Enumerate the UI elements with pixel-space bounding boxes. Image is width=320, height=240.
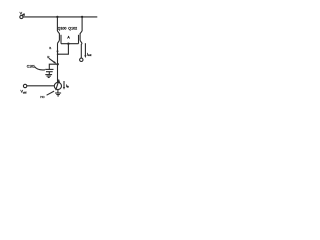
ground below capacitor xyxy=(45,75,52,78)
wire current source to ground xyxy=(57,90,59,93)
node A xyxy=(67,35,70,45)
wire Vctrl to current source xyxy=(27,85,55,87)
current source xyxy=(54,79,61,90)
svg-text:Vdd: Vdd xyxy=(20,12,26,17)
ground below current source xyxy=(55,93,61,96)
transistor Q100 xyxy=(57,26,66,43)
svg-text:Iout: Iout xyxy=(87,52,92,57)
svg-text:A: A xyxy=(67,35,70,39)
wire Q102 drain output xyxy=(80,43,83,58)
svg-text:Vctrl: Vctrl xyxy=(21,90,27,95)
svg-text:Iin: Iin xyxy=(66,84,69,89)
Vctrl terminal xyxy=(21,84,27,94)
output terminal xyxy=(80,58,83,61)
node jog junction xyxy=(57,53,59,55)
annotation arrow Iout xyxy=(84,43,91,58)
wire left column xyxy=(57,43,59,82)
wire Vdd rail xyxy=(23,16,97,18)
svg-text:Q102: Q102 xyxy=(68,27,77,31)
wire diode connection jog xyxy=(58,44,69,55)
transistor Q102 xyxy=(68,27,82,44)
wire capacitor branch xyxy=(49,64,57,69)
svg-text:HC: HC xyxy=(40,95,45,99)
wire Q100 source lead from rail xyxy=(56,17,58,31)
node capacitor branch junction xyxy=(57,63,59,65)
node junction rail to Q102 xyxy=(81,16,83,18)
node junction rail to Q100 xyxy=(56,16,58,18)
wire gate bus xyxy=(61,43,78,45)
annotation current arrow I1 on column xyxy=(49,46,58,54)
Vdd terminal xyxy=(20,12,26,19)
capacitor C101 xyxy=(27,64,54,74)
label HC with leader xyxy=(40,91,54,99)
svg-text:Q100: Q100 xyxy=(58,26,67,30)
annotation arrow Iin xyxy=(63,81,70,90)
svg-text:C101: C101 xyxy=(27,64,35,68)
svg-text:I1: I1 xyxy=(49,46,52,50)
annotation arrow I2 to capacitor node xyxy=(47,55,56,64)
wire Q102 source lead from rail xyxy=(81,17,83,31)
